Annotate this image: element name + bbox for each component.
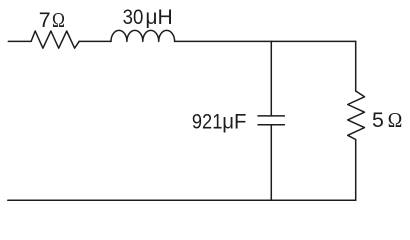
- resistor R1 7ohm: [31, 31, 79, 48]
- svg-text:Ω: Ω: [52, 9, 65, 32]
- inductor L1 30uH: [111, 30, 175, 41]
- svg-text:μH: μH: [145, 6, 172, 29]
- svg-text:30: 30: [123, 6, 144, 29]
- wire top-left lead: [8, 40, 31, 42]
- wire capacitor branch upper segment: [270, 41, 272, 116]
- svg-text:Ω: Ω: [388, 109, 403, 132]
- svg-text:μF: μF: [222, 110, 246, 133]
- wire right branch upper segment: [355, 41, 357, 91]
- wire capacitor branch lower segment: [270, 125, 272, 201]
- wire right branch lower segment: [355, 140, 357, 201]
- wire bottom: [8, 199, 356, 201]
- capacitor C1 921uF plates: [258, 116, 284, 125]
- svg-text:921: 921: [192, 110, 222, 134]
- resistor R2 5ohm (vertical): [348, 91, 365, 140]
- wire top from L1 to top-right corner: [175, 40, 356, 42]
- svg-text:7: 7: [39, 8, 51, 32]
- svg-text:5: 5: [372, 108, 384, 132]
- wire between R1 and L1: [79, 40, 111, 42]
